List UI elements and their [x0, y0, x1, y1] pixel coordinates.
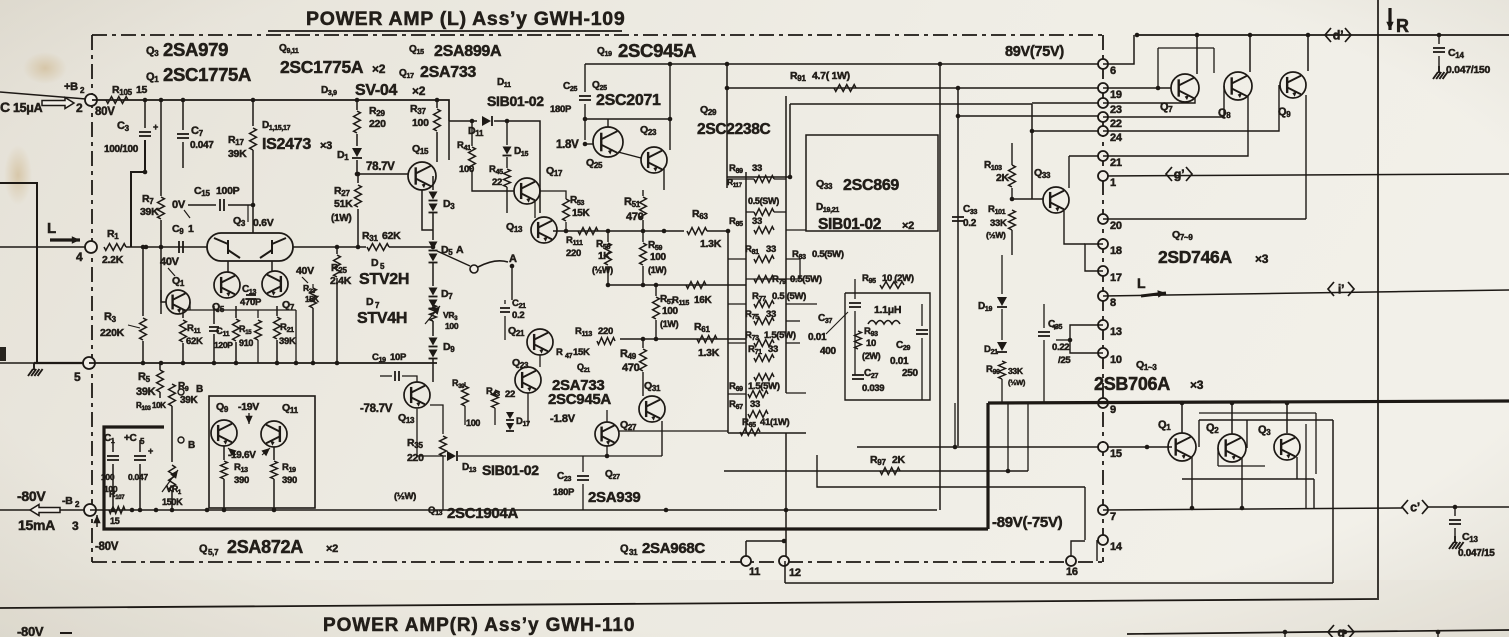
wire R53 down	[565, 222, 567, 231]
wire D11 left down	[448, 121, 450, 160]
junction	[1306, 33, 1311, 38]
wire to D3 chain	[432, 176, 434, 190]
rung left 259	[728, 258, 746, 260]
diode D13	[447, 451, 456, 461]
resistor R39 100	[462, 386, 469, 406]
wire to pin 14	[1084, 487, 1086, 540]
wire R19 down	[273, 479, 275, 510]
svg-text:-80V: -80V	[17, 488, 46, 504]
capacitor C14 0.047/150	[1433, 48, 1445, 52]
wire R51 down	[642, 220, 644, 231]
wire row 447 to Q1 base	[857, 446, 1172, 448]
bus Q collector 940	[939, 64, 941, 510]
connector pin 18	[1098, 239, 1108, 249]
connector pin 15	[1098, 442, 1108, 452]
ladder bus mid	[745, 172, 747, 433]
svg-text:2K: 2K	[996, 172, 1010, 184]
svg-text:220K: 220K	[100, 327, 125, 339]
svg-text:10: 10	[1110, 354, 1122, 366]
svg-text:0.039: 0.039	[862, 383, 884, 394]
svg-text:SIB01-02: SIB01-02	[482, 462, 539, 478]
svg-text:9: 9	[1110, 404, 1116, 416]
wire Q29 collector to rail	[726, 64, 728, 188]
wire to C11	[213, 306, 215, 324]
wire C7 down	[182, 142, 184, 168]
svg-text:23: 23	[1110, 104, 1122, 116]
junction	[1195, 33, 1200, 38]
rung left 304	[728, 303, 746, 305]
wire pin 24 to Q9 base	[1103, 85, 1279, 131]
wire Q2 collector	[1231, 403, 1233, 434]
wire R3 down	[142, 341, 144, 363]
wire output box top	[1199, 419, 1333, 421]
junction	[725, 62, 730, 67]
transistor Q23	[641, 147, 667, 173]
svg-text:×2: ×2	[372, 62, 386, 76]
resistor R77 0.5	[754, 301, 774, 308]
wire bias row	[89, 362, 437, 364]
svg-text:2SC1904A: 2SC1904A	[447, 505, 518, 522]
wire D13 right	[458, 455, 662, 457]
wire to C21	[504, 300, 506, 304]
resistor R57 100	[653, 297, 660, 319]
thick bus vertical	[986, 403, 989, 529]
svg-text:8: 8	[1110, 297, 1116, 309]
diode D3 b	[429, 204, 438, 212]
svg-text:1: 1	[1110, 177, 1116, 189]
wire to R23	[312, 284, 314, 288]
wire Q15 emitter down	[422, 190, 433, 230]
wire Q1 emitter	[189, 302, 191, 310]
wire	[746, 211, 754, 213]
wire to C19	[380, 375, 392, 377]
wire VR1 down	[171, 491, 173, 510]
svg-text:250: 250	[902, 368, 919, 379]
wire pin 14 down	[1096, 540, 1098, 561]
wire C37 up	[854, 279, 856, 299]
channel divider vertical	[1377, 0, 1379, 600]
wire Q8 emitter to pin 21	[1103, 96, 1248, 156]
svg-text:33: 33	[752, 163, 762, 174]
svg-text:(1W): (1W)	[660, 319, 679, 329]
svg-text:A: A	[509, 253, 517, 265]
svg-text:100: 100	[466, 418, 480, 428]
tick 40V right	[302, 277, 308, 283]
wire R45 down	[506, 187, 508, 213]
transistor Q27	[595, 422, 619, 446]
small arrow at terminal 3	[96, 515, 98, 527]
wire Q8 collector	[1249, 35, 1251, 72]
wire R15 down	[235, 342, 237, 363]
junction	[1145, 445, 1150, 450]
wire VR3 to D9	[432, 321, 434, 336]
svg-text:2.2K: 2.2K	[102, 254, 124, 266]
wire +80V rail	[92, 100, 449, 121]
resistor R15 910	[233, 319, 240, 341]
svg-text:POWER AMP (L) Ass’y GWH-109: POWER AMP (L) Ass’y GWH-109	[306, 8, 625, 30]
box around Q9 Q11	[209, 396, 315, 508]
transistor Q13	[404, 382, 430, 408]
transistor Q8 output	[1224, 72, 1252, 100]
svg-text:B: B	[188, 440, 195, 451]
resistor R107 15	[109, 507, 125, 514]
resistor VR3	[430, 305, 437, 321]
svg-text:39K: 39K	[140, 206, 159, 218]
box around coil	[845, 293, 930, 400]
wire	[774, 178, 786, 180]
wire Q1 base col	[160, 290, 162, 314]
svg-text:4: 4	[76, 250, 83, 264]
connector pin 23	[1098, 98, 1108, 108]
svg-text:47: 47	[565, 353, 573, 360]
wire R101 down	[1011, 230, 1013, 255]
svg-text:STV2H: STV2H	[359, 271, 409, 288]
wire to C23	[582, 456, 584, 472]
svg-text:2SB706A: 2SB706A	[1094, 374, 1170, 394]
svg-text:-1.8V: -1.8V	[550, 413, 576, 425]
stub R channel b	[1437, 632, 1439, 637]
svg-text:(2W): (2W)	[862, 351, 881, 361]
wire Q9 emitter down	[1305, 95, 1307, 219]
svg-text:18: 18	[1110, 245, 1122, 257]
svg-text:20: 20	[1110, 220, 1122, 232]
wire module left	[789, 104, 791, 177]
wire to Q33 base	[1012, 198, 1043, 200]
transistor Q15	[408, 162, 436, 190]
svg-text:-19V: -19V	[238, 401, 259, 413]
wire to R103	[1011, 143, 1013, 165]
svg-text:+C: +C	[124, 433, 137, 444]
node B lower	[178, 437, 184, 443]
svg-text:33: 33	[766, 309, 776, 320]
junction	[1240, 506, 1245, 511]
wire to D15	[506, 121, 508, 145]
svg-text:10K: 10K	[152, 401, 166, 410]
wire to pin 24	[1032, 130, 1098, 132]
wire inner box a	[1305, 424, 1307, 508]
svg-text:2SC1775A: 2SC1775A	[280, 57, 364, 77]
connector pin 1	[1098, 171, 1108, 181]
wire -B input	[0, 509, 85, 511]
resistor R27 51K	[355, 185, 362, 207]
svg-text:-78.7V: -78.7V	[360, 403, 393, 415]
wire Q25 collector up	[607, 119, 609, 127]
resistor R93 10	[855, 331, 862, 349]
resistor R111 220	[578, 228, 598, 235]
wire C23 down	[582, 484, 584, 510]
svg-text:2SC1775A: 2SC1775A	[163, 64, 251, 85]
svg-text:33: 33	[768, 344, 778, 355]
wire top link v2	[1213, 48, 1215, 73]
wire Q1 emitter	[1191, 457, 1193, 479]
wire C29 up	[921, 304, 923, 326]
connector pin 14	[1098, 535, 1108, 545]
wire Q25 emitter to Q23 base	[618, 152, 641, 158]
diode D15	[503, 147, 512, 155]
wire 471 up b	[1027, 403, 1029, 471]
resistor R5 39K	[157, 370, 164, 392]
wire to R15	[235, 306, 237, 318]
wire Q9 collector	[1307, 35, 1309, 71]
wire R31 right	[389, 246, 433, 248]
wire C37 down	[854, 311, 856, 375]
svg-text:10: 10	[866, 338, 876, 349]
resistor R105 15	[106, 97, 128, 104]
svg-text:15: 15	[110, 516, 120, 526]
svg-text:0.6V: 0.6V	[253, 217, 274, 229]
wire base link	[1218, 465, 1265, 467]
svg-text:31: 31	[629, 548, 638, 557]
svg-text:0.5(5W): 0.5(5W)	[812, 249, 844, 260]
junction	[1135, 33, 1140, 38]
C1 box left	[103, 430, 105, 510]
svg-text:(½W): (½W)	[592, 265, 613, 275]
wire to terminal 5	[0, 362, 84, 364]
svg-text:L: L	[1137, 275, 1146, 291]
svg-text:-80V: -80V	[95, 541, 119, 553]
long separator line	[0, 599, 1377, 608]
wire D1 to Q15 base	[357, 160, 408, 174]
wire to C7	[182, 100, 184, 130]
svg-text:390: 390	[234, 475, 249, 486]
junction	[355, 172, 360, 177]
svg-text:5,7: 5,7	[208, 548, 219, 557]
node g'	[1166, 167, 1192, 181]
svg-text:×3: ×3	[1255, 252, 1269, 266]
svg-text:33K: 33K	[1008, 366, 1024, 376]
svg-text:15: 15	[136, 84, 148, 96]
resistor R13 390	[221, 461, 228, 479]
resistor R91 4.7	[834, 85, 856, 92]
capacitor C37 0.01/400	[849, 303, 861, 307]
svg-text:220: 220	[407, 452, 424, 464]
resistor R11 62K	[180, 320, 187, 342]
svg-text:×2: ×2	[902, 220, 914, 232]
svg-text:14: 14	[1110, 541, 1123, 553]
ladder bottom	[728, 432, 806, 434]
ground (input)	[28, 363, 43, 376]
diode D7 b	[429, 300, 438, 308]
junction	[668, 117, 673, 122]
connector pin 6	[1098, 59, 1108, 69]
wire to R21	[276, 306, 278, 316]
resistor R37 100	[434, 109, 441, 131]
svg-text:19: 19	[1110, 89, 1122, 101]
resistor R99 33K	[999, 361, 1006, 379]
svg-text:15K: 15K	[305, 295, 319, 304]
resistor R113 220	[597, 338, 615, 345]
wire pins 18-17 link	[1085, 244, 1103, 271]
wire C1 down	[112, 464, 114, 510]
junction	[1068, 338, 1073, 343]
wire Q2 emitter	[1241, 458, 1243, 479]
wire R41 to Q17 base	[472, 170, 514, 191]
svg-text:62K: 62K	[186, 336, 203, 347]
wire C35 down	[1043, 340, 1045, 403]
wire to R27	[357, 174, 359, 183]
wire D15 down	[506, 157, 508, 168]
wire box v1	[1198, 420, 1200, 447]
resistor R115 16K	[686, 282, 706, 289]
svg-text:1.5(5W): 1.5(5W)	[764, 330, 796, 341]
diode D5 b	[429, 254, 438, 262]
wire	[746, 178, 754, 180]
wire Q1 emitter to rail	[1191, 479, 1193, 508]
diode D9 a	[429, 338, 438, 346]
wire pins 13-10 link	[1070, 325, 1103, 353]
arrow input L	[50, 238, 80, 241]
wire Q27 to ladder	[619, 430, 728, 432]
svg-text:13: 13	[1110, 326, 1122, 338]
svg-text:2SC869: 2SC869	[843, 177, 899, 194]
wire Q27 emitter	[606, 446, 608, 456]
wire input +B	[0, 92, 86, 99]
node i'	[1328, 282, 1354, 296]
box emitter-resistor module	[806, 135, 938, 231]
junction	[1190, 506, 1195, 511]
svg-text:×2: ×2	[326, 543, 338, 555]
svg-text:c’: c’	[1410, 501, 1420, 515]
junction	[251, 203, 256, 208]
svg-text:220: 220	[369, 118, 386, 130]
wire pin 22 to Q8 base	[1103, 116, 1224, 118]
transistor Q33	[1043, 187, 1069, 213]
resistor R21 39K	[274, 317, 281, 339]
wire emitter bus	[1182, 478, 1314, 480]
rung right 259	[786, 259, 800, 279]
capacitor C7 0.047	[177, 134, 189, 138]
diode D5 a	[429, 242, 438, 250]
assembly border right (dash-dot)	[1102, 35, 1104, 562]
svg-text:100: 100	[662, 306, 679, 317]
svg-text:100: 100	[650, 252, 667, 263]
wire input L	[0, 246, 85, 248]
resistor R17 39K	[250, 128, 257, 150]
resistor R43 22	[492, 390, 499, 408]
junction	[1010, 197, 1015, 202]
svg-text:2SA733: 2SA733	[420, 64, 476, 81]
wire to R59	[642, 231, 644, 242]
junction	[583, 117, 588, 122]
wire C25 up	[584, 64, 586, 92]
wire row 487	[817, 455, 1085, 487]
bus 958	[957, 87, 959, 446]
svg-text:15K: 15K	[573, 347, 590, 358]
assembly border bottom (dash-dot)	[92, 561, 1103, 563]
svg-text:80V: 80V	[95, 106, 115, 118]
wire Q21 to Q23	[539, 355, 541, 367]
arrow -19V	[248, 413, 250, 424]
transistor Q5	[214, 272, 240, 298]
svg-text:0.5 (5W): 0.5 (5W)	[772, 291, 806, 302]
svg-text:470: 470	[626, 211, 644, 223]
wire C5 down	[139, 464, 141, 510]
wire to R39	[464, 382, 466, 386]
wire R7 to Q1 base	[161, 220, 166, 302]
wire Q33 emitter to pin 18	[1064, 211, 1085, 244]
wire feedback row	[553, 230, 684, 232]
wire A down	[511, 266, 513, 300]
wire to Q29	[727, 176, 790, 178]
diode D3 a	[429, 192, 438, 200]
rung left 394	[728, 393, 746, 395]
wire left shield	[0, 183, 37, 362]
svg-text:×2: ×2	[412, 84, 426, 98]
resistor R85 33	[754, 227, 774, 234]
svg-text:22: 22	[1110, 118, 1122, 130]
dash bottom left	[60, 632, 72, 634]
wire R37 to Q15 collector	[436, 132, 438, 162]
diode D19	[997, 297, 1007, 306]
svg-text:22: 22	[492, 177, 502, 188]
wire to C13	[1454, 507, 1456, 516]
svg-text:15mA: 15mA	[18, 517, 55, 533]
svg-text:2SA939: 2SA939	[588, 489, 640, 506]
svg-text:33K: 33K	[990, 218, 1007, 229]
arrow -19.6V b	[262, 448, 270, 455]
wire R99 down	[1001, 379, 1003, 403]
transistor Q17	[514, 178, 540, 204]
connector pin 22	[1098, 112, 1108, 122]
wire 447 up	[954, 403, 956, 447]
svg-text:470P: 470P	[240, 297, 262, 308]
wire to R17	[252, 100, 254, 126]
svg-text:C: C	[0, 99, 10, 115]
rung right 343	[786, 342, 800, 344]
svg-text:10P: 10P	[390, 352, 407, 363]
box coil module	[0, 0, 1, 1]
svg-text:220: 220	[566, 248, 581, 259]
junction	[1230, 401, 1235, 406]
resistor R103 2K	[1009, 165, 1016, 187]
svg-text:(½W): (½W)	[1008, 378, 1026, 387]
wire Q31 emitter down	[661, 421, 663, 456]
capacitor C33 0.2	[952, 217, 964, 221]
wire box v2	[1246, 420, 1248, 448]
wire R19b down	[257, 340, 259, 363]
svg-text:39K: 39K	[136, 386, 156, 398]
diode D7 a	[429, 288, 438, 296]
VR3 wiper arrow	[425, 306, 440, 324]
junction	[668, 62, 673, 67]
capacitor C15 100P	[220, 199, 224, 211]
junction	[782, 539, 787, 544]
wire inner box b	[1315, 413, 1317, 474]
svg-text:15K: 15K	[572, 208, 591, 219]
svg-text:2: 2	[76, 101, 83, 115]
wire pin 16 up	[1071, 541, 1085, 561]
wire 11-12 bridge	[746, 540, 784, 542]
resistor R3 220K	[140, 318, 147, 340]
wire to pin 22	[958, 115, 1098, 117]
connector pin 17	[1098, 266, 1108, 276]
wire to R11	[182, 310, 184, 318]
wire C13 down	[1454, 528, 1456, 536]
capacitor C13 470P	[246, 295, 256, 299]
wire R11 down	[182, 343, 184, 363]
resistor R101 33K	[1009, 210, 1016, 230]
transistor Q11	[261, 421, 287, 447]
connector pin 7	[1098, 505, 1108, 515]
wire to D11	[449, 120, 477, 122]
switch A arm	[478, 261, 508, 267]
R channel arrow	[1388, 8, 1391, 30]
wire R39 down	[464, 406, 466, 425]
svg-text:180P: 180P	[550, 104, 572, 115]
wire R103 down	[1011, 188, 1013, 199]
resistor R19 390	[271, 461, 278, 479]
wire R9 down	[171, 406, 173, 462]
